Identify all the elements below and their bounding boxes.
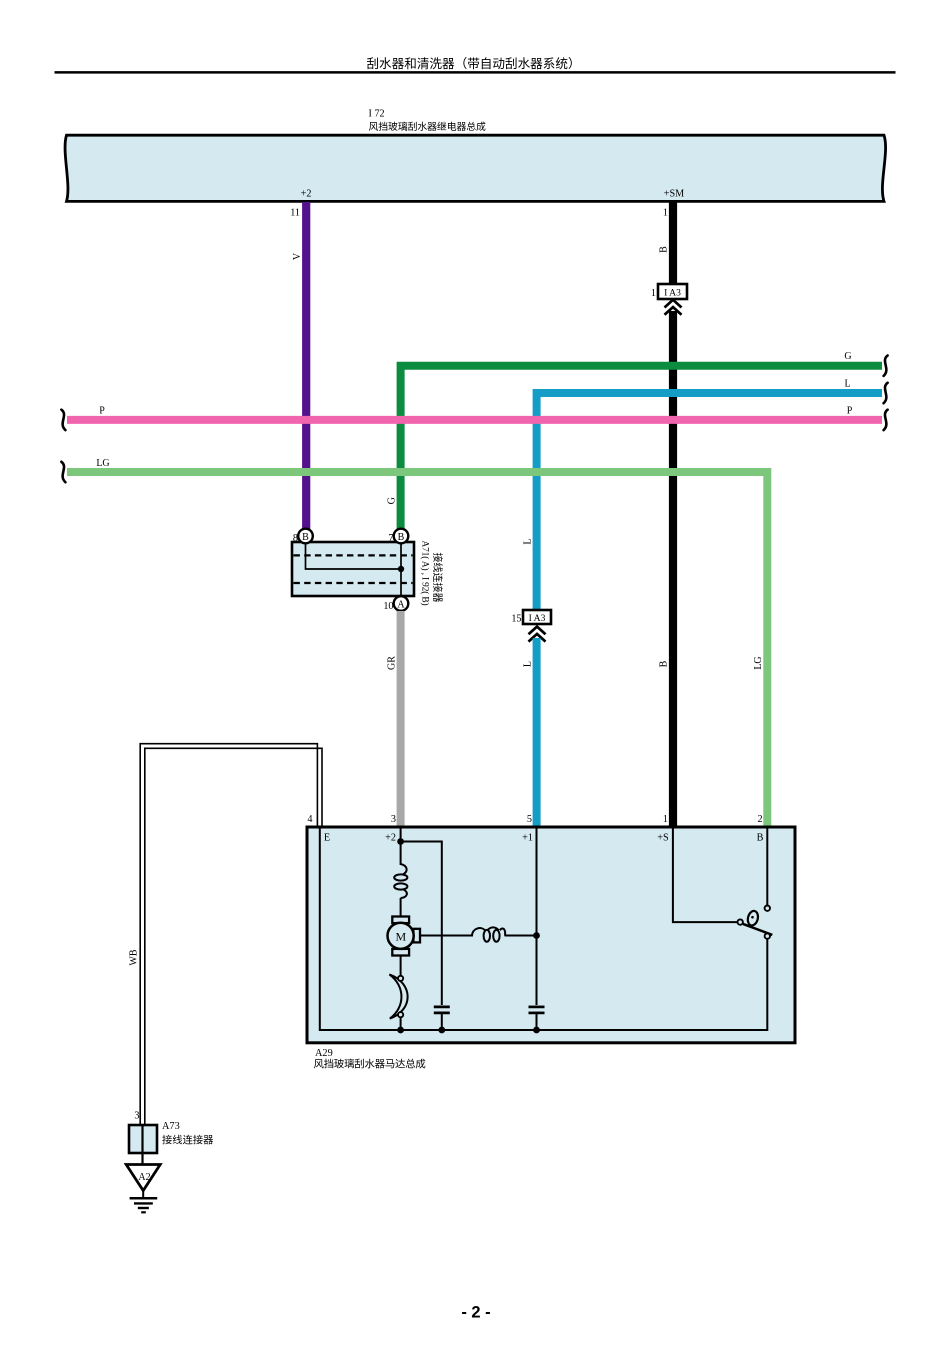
svg-text:7: 7 (388, 533, 393, 544)
coil (field winding) (401, 864, 407, 875)
svg-text:1: 1 (663, 208, 668, 219)
svg-text:+1: +1 (522, 833, 533, 844)
svg-text:E: E (324, 833, 330, 844)
svg-text:B: B (659, 246, 670, 253)
svg-text:A71( A) , I 92( B): A71( A) , I 92( B) (420, 541, 431, 606)
svg-text:A73: A73 (162, 1121, 180, 1132)
svg-text:8: 8 (293, 533, 298, 544)
crescent contact top (398, 976, 403, 981)
+1 line (536, 829, 538, 1006)
svg-text:I 72: I 72 (369, 109, 385, 120)
motor lower lead (400, 956, 402, 977)
ground triangle A2 (126, 1165, 160, 1191)
svg-text:接线连接器: 接线连接器 (431, 553, 444, 603)
bus junction dots (397, 1027, 404, 1034)
motor assembly A29 box (307, 827, 795, 1043)
inner vertical pin7 to pin10 (400, 543, 402, 596)
+S line (673, 829, 737, 923)
svg-text:B: B (398, 532, 405, 543)
svg-text:+S: +S (657, 833, 669, 844)
squiggle L right (884, 383, 888, 403)
chevron marks below IA3 (665, 300, 682, 308)
svg-text:P: P (99, 406, 105, 417)
svg-text:I A3: I A3 (664, 288, 681, 299)
E line and ground bus (320, 829, 768, 1031)
relay I72 box (wavy ends) (65, 135, 886, 201)
wire B (black) I72 pin 1 to connector IA3 (669, 202, 677, 284)
junction dot +1 (533, 932, 540, 939)
+2 line upper (400, 829, 402, 866)
svg-text:A: A (397, 600, 405, 611)
svg-text:G: G (387, 497, 398, 504)
title rule (55, 71, 896, 74)
wire GR (gray) A71 pin 10 to A29 pin 3 (397, 611, 405, 827)
connector 1 IA3 box (658, 284, 687, 299)
svg-text:I A3: I A3 (529, 613, 546, 624)
motor M (392, 917, 409, 924)
svg-text:LG: LG (753, 656, 764, 669)
armature coil (472, 928, 485, 935)
connector 15 IA3 box on L wire (523, 610, 551, 624)
cam ellipse (746, 910, 759, 927)
svg-text:3: 3 (391, 814, 396, 825)
park cam crescent (389, 974, 407, 1018)
svg-text:1: 1 (663, 814, 668, 825)
+S contact (738, 919, 743, 924)
svg-text:V: V (292, 252, 303, 260)
terminal circle B pin 7 (394, 529, 409, 544)
svg-text:11: 11 (290, 208, 300, 219)
svg-text:M: M (395, 929, 406, 943)
squiggle P left (61, 410, 65, 430)
wire L (teal) horizontal + down to IA3 15 (537, 393, 882, 610)
svg-text:接线连接器: 接线连接器 (162, 1134, 213, 1147)
svg-text:B: B (659, 660, 670, 667)
coil to motor lead (400, 898, 402, 917)
chevrons below IA3 15 (529, 627, 546, 635)
connector A71 box (292, 542, 414, 596)
svg-text:L: L (523, 661, 534, 667)
svg-text:G: G (844, 351, 851, 362)
svg-text:A2: A2 (138, 1172, 150, 1183)
junction dot A71 (398, 566, 404, 572)
squiggle G right (884, 356, 888, 376)
terminal circle A pin 10 (394, 596, 409, 611)
wire through A73 to ground (141, 1126, 143, 1165)
svg-text:WB: WB (129, 949, 140, 965)
lead to bus (400, 1017, 402, 1030)
B fixed contact (765, 906, 770, 911)
motor right lead (420, 935, 473, 937)
svg-text:3: 3 (134, 1111, 139, 1122)
blade end contact (765, 933, 770, 938)
wire V (purple) I72 pin 11 to A71 (302, 202, 310, 531)
dashed line lower (294, 582, 413, 584)
junction dot +2 (397, 838, 404, 845)
dashed line upper (294, 554, 413, 556)
wire B (black) below IA3 to A29 pin 1 (669, 311, 677, 827)
svg-text:LG: LG (96, 458, 109, 469)
squiggle P right (884, 410, 888, 430)
svg-text:刮水器和清洗器（带自动刮水器系统）: 刮水器和清洗器（带自动刮水器系统） (366, 57, 580, 71)
svg-text:L: L (523, 538, 534, 544)
wire LG (light green) horizontal + down to A29 pin 2 (67, 472, 767, 827)
wire WB double line A29 pin 4 to A73 (140, 744, 317, 1125)
svg-text:10: 10 (383, 601, 393, 612)
ground hatches (130, 1197, 158, 1200)
wire P (pink) full width (67, 416, 882, 424)
lead to +1 node (505, 935, 537, 937)
svg-text:+SM: +SM (664, 189, 684, 200)
svg-text:B: B (302, 532, 309, 543)
B contact line from pin 2 (766, 829, 768, 906)
svg-text:15: 15 (511, 614, 521, 625)
branch to capacitor 1 (401, 842, 442, 1006)
ground stem (142, 1191, 144, 1199)
svg-text:2: 2 (758, 814, 763, 825)
connector A73 box (129, 1125, 157, 1153)
cam dot (751, 916, 754, 919)
capacitor 2 (529, 1006, 545, 1009)
terminal circle B pin 8 (298, 529, 313, 544)
wire G (green) horizontal + down to A71 pin 7 (401, 366, 882, 531)
capacitor 1 (434, 1006, 450, 1009)
svg-text:- 2 -: - 2 - (461, 1304, 490, 1322)
svg-text:GR: GR (387, 656, 398, 670)
svg-text:+2: +2 (385, 833, 396, 844)
crescent contact bottom (398, 1012, 403, 1017)
switch blade (743, 924, 772, 935)
svg-text:L: L (844, 379, 850, 390)
wire L below IA3 to A29 pin 5 (533, 638, 541, 827)
svg-text:风挡玻璃刮水器马达总成: 风挡玻璃刮水器马达总成 (314, 1058, 426, 1071)
svg-text:A29: A29 (315, 1048, 333, 1059)
svg-text:5: 5 (527, 814, 532, 825)
squiggle LG left (61, 462, 65, 482)
svg-text:风挡玻璃刮水器继电器总成: 风挡玻璃刮水器继电器总成 (369, 120, 487, 133)
inner link from pin 8 to pin 7 column (306, 543, 402, 569)
svg-text:+2: +2 (301, 189, 312, 200)
svg-text:P: P (847, 406, 853, 417)
svg-text:B: B (757, 833, 764, 844)
svg-text:4: 4 (307, 814, 312, 825)
svg-text:1: 1 (651, 288, 656, 299)
